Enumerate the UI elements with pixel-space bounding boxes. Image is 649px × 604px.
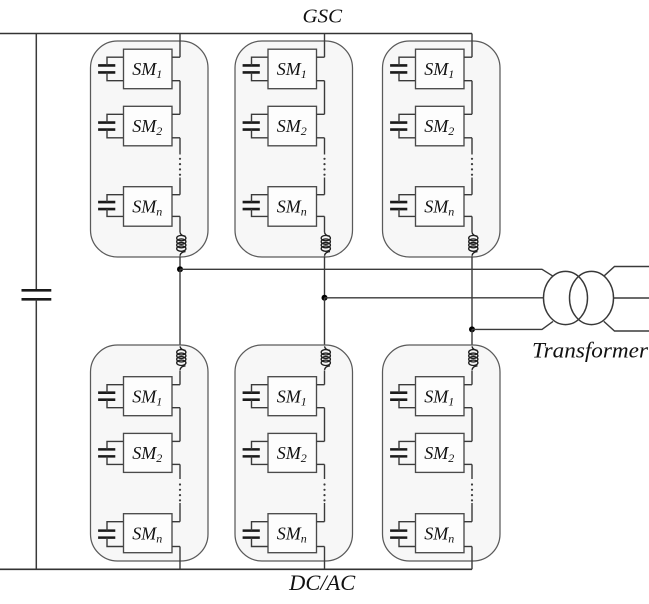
- submodule SM1 (lower arm B): [268, 377, 317, 416]
- wire: SM1 upper arm A right stubs: [172, 57, 180, 80]
- wire: SM2 upper arm A capacitor leads: [107, 114, 124, 138]
- wire: SM2 lower arm B capacitor leads: [252, 441, 269, 464]
- submodule SM2 (lower arm B): [268, 433, 317, 472]
- wire: DC bus to SM1 (upper arm C): [471, 34, 473, 58]
- capacitor of SM1 (lower arm A): [98, 393, 115, 400]
- upper arm A outline: [91, 41, 209, 257]
- wire: SMn to arm inductor (upper arm A): [179, 216, 181, 232]
- wire: SM2 upper arm C right stubs: [464, 114, 472, 138]
- wire: SM1 upper arm B right stubs: [317, 57, 325, 80]
- wire: SMn upper arm B capacitor leads: [252, 195, 269, 217]
- submodule SMn (lower arm B): [268, 514, 317, 553]
- wire: SM1 lower arm A right stubs: [172, 385, 180, 408]
- node: AC phase C junction: [469, 326, 475, 332]
- wire: inductor to SM1 (lower arm A): [179, 370, 181, 384]
- wire: SM1-SM2 link (upper arm C): [471, 81, 473, 115]
- wire: ellipsis to SMn (upper arm C): [471, 178, 473, 195]
- wire: upper arm C inductor to AC node: [471, 256, 473, 329]
- capacitor of SM2 (upper arm B): [243, 123, 260, 130]
- wire: ellipsis to SMn (lower arm B): [324, 503, 326, 522]
- upper arm B outline: [235, 41, 353, 257]
- capacitor of SMn (upper arm C): [390, 202, 407, 209]
- submodule SM2 (upper arm C): [416, 106, 465, 146]
- wire: SMn upper arm B right stubs: [317, 195, 325, 217]
- capacitor of SM1 (upper arm C): [390, 65, 407, 72]
- wire: SM1-SM2 link (lower arm C): [471, 408, 473, 442]
- capacitor of SMn (lower arm A): [98, 531, 115, 538]
- submodule SMn (upper arm A): [124, 187, 173, 227]
- wire: SMn lower arm C capacitor leads: [399, 522, 416, 547]
- submodule SM1 (upper arm C): [416, 49, 465, 88]
- wire: DC bus to SM1 (upper arm B): [324, 34, 326, 58]
- wire: AC node to lower arm A: [179, 269, 181, 346]
- wire: SM2 lower arm C capacitor leads: [399, 441, 416, 464]
- submodule SMn (lower arm C): [416, 514, 465, 553]
- wire: ellipsis to SMn (lower arm A): [179, 503, 181, 522]
- wire: SMn lower arm A capacitor leads: [107, 522, 124, 547]
- arm inductor (lower arm B): [321, 346, 330, 370]
- wire: transformer secondary middle line: [614, 297, 649, 299]
- wire: SM2 lower arm A right stubs: [172, 441, 180, 464]
- wire: SM2 upper arm B capacitor leads: [252, 114, 269, 138]
- submodule SM1 (upper arm B): [268, 49, 317, 88]
- capacitor of SM2 (lower arm B): [243, 449, 260, 456]
- transformer secondary winding circle: [570, 271, 614, 324]
- ellipsis dots (upper arm C): [471, 158, 473, 176]
- arm inductor (lower arm C): [469, 346, 478, 370]
- arm inductor (lower arm A): [177, 346, 186, 370]
- transformer primary winding circle: [544, 271, 588, 324]
- wire: SM1 upper arm B capacitor leads: [252, 57, 269, 80]
- lower arm C outline: [383, 345, 501, 561]
- wire: SM2 lower arm C right stubs: [464, 441, 472, 464]
- capacitor of SM2 (lower arm A): [98, 449, 115, 456]
- svg-text:DC/AC: DC/AC: [288, 570, 355, 595]
- capacitor of SMn (lower arm B): [243, 531, 260, 538]
- capacitor of SMn (lower arm C): [390, 531, 407, 538]
- wire: DC-link capacitor top lead: [35, 34, 37, 291]
- wire: negative DC bus (bottom rail): [0, 568, 472, 570]
- wire: ellipsis to SMn (upper arm A): [179, 178, 181, 195]
- wire: SMn to DC bus (lower arm B): [324, 547, 326, 570]
- wire: SM2 to ellipsis (upper arm A): [179, 138, 181, 155]
- node: AC phase A junction: [177, 266, 183, 272]
- submodule SM1 (lower arm A): [124, 377, 173, 416]
- lower arm B outline: [235, 345, 353, 561]
- wire: inductor to SM1 (lower arm C): [471, 370, 473, 384]
- wire: SM2 upper arm A right stubs: [172, 114, 180, 138]
- submodule SM2 (upper arm A): [124, 106, 173, 146]
- ellipsis dots (lower arm A): [179, 483, 181, 501]
- wire: SM2 upper arm C capacitor leads: [399, 114, 416, 138]
- submodule SMn (lower arm A): [124, 514, 173, 553]
- wire: SM1-SM2 link (lower arm B): [324, 408, 326, 442]
- wire: SM1-SM2 link (lower arm A): [179, 408, 181, 442]
- wire: phase C line to transformer: [472, 321, 553, 329]
- capacitor of SM2 (lower arm C): [390, 449, 407, 456]
- ellipsis dots (upper arm B): [323, 158, 325, 176]
- wire: SM2 to ellipsis (lower arm C): [471, 464, 473, 479]
- wire: SMn lower arm B right stubs: [317, 522, 325, 547]
- submodule SMn (upper arm C): [416, 187, 465, 227]
- wire: SMn to arm inductor (upper arm C): [471, 216, 473, 232]
- wire: SMn lower arm C right stubs: [464, 522, 472, 547]
- wire: SM1-SM2 link (upper arm A): [179, 81, 181, 115]
- svg-text:Transformer: Transformer: [532, 338, 648, 363]
- wire: DC-link capacitor bottom lead: [35, 300, 37, 570]
- capacitor of SM2 (upper arm A): [98, 123, 115, 130]
- wire: SM2 lower arm B right stubs: [317, 441, 325, 464]
- submodule SM2 (lower arm A): [124, 433, 173, 472]
- wire: transformer secondary top line: [604, 267, 649, 277]
- wire: ellipsis to SMn (lower arm C): [471, 503, 473, 522]
- wire: SMn to arm inductor (upper arm B): [324, 216, 326, 232]
- wire: SM2 to ellipsis (lower arm B): [324, 464, 326, 479]
- wire: SMn to DC bus (lower arm C): [471, 547, 473, 570]
- capacitor of SM1 (lower arm C): [390, 393, 407, 400]
- wire: SMn upper arm C right stubs: [464, 195, 472, 217]
- wire: AC node to lower arm B: [324, 298, 326, 347]
- wire: upper arm B inductor to AC node: [324, 256, 326, 298]
- wire: SM2 lower arm A capacitor leads: [107, 441, 124, 464]
- wire: ellipsis to SMn (upper arm B): [324, 178, 326, 195]
- wire: SM1 upper arm A capacitor leads: [107, 57, 124, 80]
- svg-text:GSC: GSC: [303, 5, 343, 27]
- wire: SM2 to ellipsis (upper arm B): [324, 138, 326, 155]
- capacitor of SMn (upper arm B): [243, 202, 260, 209]
- wire: SM2 to ellipsis (upper arm C): [471, 138, 473, 155]
- wire: SM1 lower arm A capacitor leads: [107, 385, 124, 408]
- node: AC phase B junction: [322, 295, 328, 301]
- wire: SM1 lower arm C capacitor leads: [399, 385, 416, 408]
- wire: SM2 upper arm B right stubs: [317, 114, 325, 138]
- wire: SM1 lower arm B capacitor leads: [252, 385, 269, 408]
- wire: transformer secondary bottom line: [604, 321, 649, 331]
- upper arm C outline: [383, 41, 501, 257]
- wire: upper arm A inductor to AC node: [179, 256, 181, 269]
- wire: SM1 upper arm C capacitor leads: [399, 57, 416, 80]
- capacitor Cdc (DC-link): [22, 290, 52, 299]
- submodule SM1 (lower arm C): [416, 377, 465, 416]
- submodule SM2 (lower arm C): [416, 433, 465, 472]
- wire: phase A line to transformer: [180, 269, 553, 276]
- wire: inductor to SM1 (lower arm B): [324, 370, 326, 384]
- wire: SMn upper arm C capacitor leads: [399, 195, 416, 217]
- wire: SM1 lower arm C right stubs: [464, 385, 472, 408]
- submodule SM2 (upper arm B): [268, 106, 317, 146]
- arm inductor (upper arm C): [469, 232, 478, 256]
- capacitor of SMn (upper arm A): [98, 202, 115, 209]
- wire: SM1 lower arm B right stubs: [317, 385, 325, 408]
- lower arm A outline: [91, 345, 209, 561]
- wire: SM1-SM2 link (upper arm B): [324, 81, 326, 115]
- capacitor of SM2 (upper arm C): [390, 123, 407, 130]
- arm inductor (upper arm A): [177, 232, 186, 256]
- wire: SMn lower arm A right stubs: [172, 522, 180, 547]
- wire: positive DC bus (top rail): [0, 33, 472, 35]
- wire: SMn upper arm A capacitor leads: [107, 195, 124, 217]
- wire: SM2 to ellipsis (lower arm A): [179, 464, 181, 479]
- arm inductor (upper arm B): [321, 232, 330, 256]
- wire: SMn upper arm A right stubs: [172, 195, 180, 217]
- ellipsis dots (lower arm C): [471, 483, 473, 501]
- ellipsis dots (lower arm B): [323, 483, 325, 501]
- wire: DC bus to SM1 (upper arm A): [179, 34, 181, 58]
- wire: AC node to lower arm C: [471, 329, 473, 346]
- wire: SMn to DC bus (lower arm A): [179, 547, 181, 570]
- capacitor of SM1 (upper arm A): [98, 65, 115, 72]
- submodule SM1 (upper arm A): [124, 49, 173, 88]
- wire: SMn lower arm B capacitor leads: [252, 522, 269, 547]
- wire: SM1 upper arm C right stubs: [464, 57, 472, 80]
- ellipsis dots (upper arm A): [179, 158, 181, 176]
- submodule SMn (upper arm B): [268, 187, 317, 227]
- capacitor of SM1 (upper arm B): [243, 65, 260, 72]
- wire: phase B line to transformer: [325, 297, 544, 299]
- capacitor of SM1 (lower arm B): [243, 393, 260, 400]
